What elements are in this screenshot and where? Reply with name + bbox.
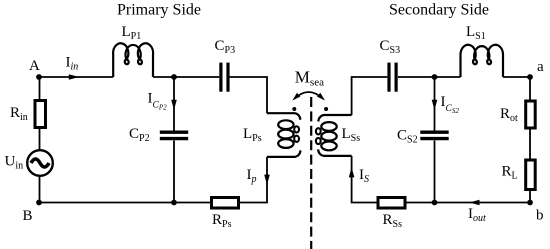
svg-text:a: a xyxy=(537,59,544,75)
polarity dot primary xyxy=(292,107,296,111)
svg-text:Msea: Msea xyxy=(295,68,324,89)
arrow I_out xyxy=(469,200,479,206)
wire R_L to node b xyxy=(529,190,531,203)
resistor R_in xyxy=(35,101,46,128)
svg-text:Ip: Ip xyxy=(247,167,257,185)
svg-text:ICP2: ICP2 xyxy=(148,90,168,111)
inductor L_S1 xyxy=(461,45,504,77)
junction dot C_P2 bottom xyxy=(171,200,177,206)
svg-text:RPs: RPs xyxy=(212,212,232,230)
svg-text:CS3: CS3 xyxy=(380,38,401,56)
svg-text:CP2: CP2 xyxy=(129,126,150,144)
svg-text:RSs: RSs xyxy=(383,212,403,230)
wire R_Ss to L_Ss bottom xyxy=(352,156,378,203)
wire L_P1 to C_P3 xyxy=(153,76,219,78)
arrow I_Cp2 xyxy=(171,100,177,110)
wire L_S1 to node a xyxy=(503,76,530,78)
dashed core line xyxy=(310,97,312,249)
wire A down to R_in xyxy=(39,77,41,101)
wire R_in to U_in xyxy=(39,128,41,150)
wire C_P2 branch lower xyxy=(173,141,175,203)
svg-text:LPs: LPs xyxy=(243,126,262,144)
node dot a xyxy=(527,74,533,80)
arrow I_in xyxy=(69,74,79,80)
wire R_Ps to B xyxy=(39,202,212,204)
coupled coil L_Ss xyxy=(316,115,352,156)
svg-text:CP3: CP3 xyxy=(215,38,236,56)
wire node a down to R_ot xyxy=(529,77,531,101)
inductor L_P1 xyxy=(113,43,153,77)
svg-text:RL: RL xyxy=(502,164,518,182)
svg-text:b: b xyxy=(536,208,544,224)
svg-text:CS2: CS2 xyxy=(397,128,418,146)
svg-text:LP1: LP1 xyxy=(122,24,142,42)
junction dot C_S2 bottom xyxy=(432,200,438,206)
resistor R_L xyxy=(526,160,536,190)
wire C_S2 branch lower xyxy=(434,141,436,203)
svg-text:Uin: Uin xyxy=(5,154,24,172)
wire node b to C_S2 junction xyxy=(435,202,531,204)
mutual coupling arc M_sea xyxy=(295,92,323,99)
capacitor C_P2 xyxy=(160,132,188,138)
wire U_in to B xyxy=(39,177,41,203)
svg-text:IS: IS xyxy=(359,167,369,185)
resistor R_Ss xyxy=(378,198,405,209)
capacitor C_S2 xyxy=(420,132,448,138)
wire C_S3 to L_S1 xyxy=(398,76,461,78)
wire C_P3 to corner xyxy=(230,77,267,113)
wire L_Ss top stub to C_S3 xyxy=(352,77,388,115)
wire C_P2 branch upper xyxy=(173,77,175,131)
wire L_Ps bottom to R_Ps xyxy=(239,157,267,203)
svg-text:B: B xyxy=(23,208,33,224)
svg-text:LSs: LSs xyxy=(342,126,361,144)
wire R_ot to R_L xyxy=(529,128,531,160)
svg-text:Secondary Side: Secondary Side xyxy=(389,2,489,19)
node dot A xyxy=(36,74,42,80)
capacitor C_S3 xyxy=(389,63,396,92)
svg-text:Primary Side: Primary Side xyxy=(117,2,201,19)
svg-text:Iout: Iout xyxy=(468,206,486,224)
wire C_S2 branch upper xyxy=(434,77,436,131)
wire A to L_P1 xyxy=(39,76,113,78)
arrowhead M_sea left xyxy=(292,93,300,101)
arrow I_p xyxy=(264,175,270,185)
resistor R_Ps xyxy=(212,198,239,209)
arrow I_S xyxy=(349,167,355,177)
polarity dot secondary xyxy=(324,107,328,111)
sine wave inside U_in xyxy=(31,159,49,167)
junction dot C_S2 top xyxy=(432,74,438,80)
svg-text:Iin: Iin xyxy=(66,55,79,73)
node dot b xyxy=(527,200,533,206)
arrow I_Cs2 xyxy=(432,100,438,110)
source U_in xyxy=(27,150,53,176)
coupled coil L_Ps xyxy=(267,113,300,157)
svg-text:A: A xyxy=(29,58,40,74)
svg-text:Rin: Rin xyxy=(10,105,28,123)
capacitor C_P3 xyxy=(221,63,228,92)
svg-text:Rot: Rot xyxy=(500,106,518,124)
arrowhead M_sea right xyxy=(317,93,325,101)
wire C_S2 junction to R_Ss xyxy=(405,202,434,204)
resistor R_ot xyxy=(526,101,536,128)
svg-text:ICS2: ICS2 xyxy=(441,94,460,115)
svg-text:LS1: LS1 xyxy=(466,24,486,42)
node dot B xyxy=(36,200,42,206)
junction dot C_P2 top xyxy=(171,74,177,80)
